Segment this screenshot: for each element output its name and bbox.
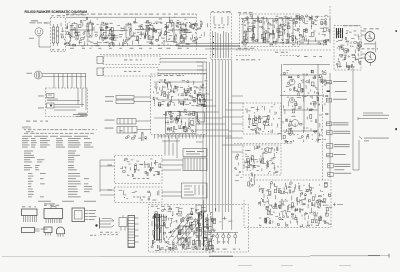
L channel label bbox=[108, 165, 113, 166]
speaker system B terminal label bbox=[333, 98, 347, 101]
FM select label bbox=[38, 95, 44, 98]
meter M1 needle bbox=[368, 33, 373, 39]
terminal block TB3 bbox=[196, 241, 201, 248]
meter connecting wires bbox=[361, 31, 366, 58]
right power amplifier dashed box bbox=[115, 187, 163, 203]
FM signal path wire bbox=[70, 30, 190, 31]
AC plug drawing bbox=[119, 215, 127, 231]
parts list text bbox=[22, 136, 93, 197]
function switch label bbox=[212, 11, 231, 12]
AC outlet terminal label bbox=[334, 144, 350, 147]
filter section dashed box bbox=[243, 103, 281, 134]
power supply components bbox=[151, 207, 216, 251]
plate text bbox=[186, 151, 204, 154]
IF transformer T1 bbox=[72, 24, 77, 38]
FM IF amplifier components bbox=[66, 22, 198, 46]
meter interconnect wire bbox=[370, 41, 376, 66]
IF transformer T3 bbox=[101, 24, 106, 38]
psu sparse wires bbox=[215, 208, 242, 222]
FM antenna jack J1 bbox=[35, 28, 43, 36]
L ch label bbox=[124, 59, 142, 60]
detector coupling components bbox=[197, 21, 210, 45]
flat package Q outline bbox=[22, 228, 48, 233]
footnote bracket 2 bbox=[359, 137, 389, 142]
section divider dashed wire 2 bbox=[100, 54, 207, 56]
wire bbox=[74, 22, 76, 24]
protection circuit dashed box bbox=[243, 145, 281, 175]
lamp labels bbox=[218, 241, 228, 242]
wire bbox=[128, 23, 130, 25]
IC package U3 outline bbox=[72, 208, 89, 222]
switch section S1-3 bbox=[47, 103, 55, 108]
fuse holder F1 bbox=[209, 239, 212, 250]
terminal block TB1 bbox=[196, 205, 202, 213]
ground terminal label bbox=[334, 172, 351, 175]
power amplifier components bbox=[283, 70, 328, 142]
B+ rail wire bbox=[66, 16, 196, 18]
phono aux wires bbox=[136, 121, 151, 130]
wire bbox=[150, 24, 152, 26]
voltage note underline bbox=[334, 168, 344, 171]
L AMPL label bbox=[133, 178, 149, 179]
headphone jack terminal bbox=[326, 122, 331, 126]
IF transformer T5 bbox=[148, 26, 153, 40]
jack return wires bbox=[142, 132, 144, 141]
switch S1-2 underline bbox=[47, 98, 58, 100]
wire bbox=[89, 22, 91, 24]
power amp rail wires bbox=[280, 64, 330, 143]
wire bbox=[44, 22, 51, 24]
power supply dashed box bbox=[149, 205, 249, 253]
IF transformer T7 bbox=[181, 24, 186, 38]
voltage regulator components bbox=[258, 182, 332, 227]
switch caption line bbox=[26, 121, 48, 122]
amp section divider dashed wire bbox=[234, 143, 292, 145]
switch routing wires bbox=[47, 88, 86, 110]
speaker system A terminal bbox=[326, 81, 331, 84]
switch position labels bbox=[214, 25, 228, 26]
U2 label bbox=[44, 205, 62, 206]
wire bbox=[169, 21, 171, 23]
IC package U1 outline bbox=[22, 209, 38, 222]
fuse holder terminal bbox=[327, 154, 333, 157]
R ch label bbox=[124, 71, 140, 72]
AM bar antenna bbox=[34, 71, 42, 79]
heat sink fins bbox=[185, 158, 203, 171]
demodulator matrix wires bbox=[243, 19, 293, 44]
front end caption bbox=[52, 49, 64, 50]
footnote bracket 1 bbox=[358, 113, 389, 120]
subtitle dashes bbox=[66, 13, 86, 16]
phono aux labels bbox=[105, 120, 115, 129]
ground terminal bbox=[328, 172, 334, 176]
function switch S1 dashed box bbox=[211, 13, 232, 60]
terminal strip bbox=[128, 216, 139, 248]
output transistor Q201 bbox=[289, 79, 295, 85]
FM front end dashed box bbox=[51, 18, 66, 52]
left power amplifier dashed box bbox=[115, 156, 163, 184]
switch wafer contacts bbox=[213, 16, 229, 58]
oscillator coil L2 bbox=[56, 24, 59, 46]
front end components bbox=[60, 23, 66, 45]
meter M2 needle bbox=[368, 53, 373, 59]
IF strip value labels bbox=[70, 48, 189, 49]
antenna switch dashed box bbox=[46, 88, 88, 117]
IF transformer T2 bbox=[87, 23, 92, 37]
power block label bbox=[343, 25, 360, 26]
dashed corner wire bbox=[296, 6, 330, 20]
headphone jack terminal label bbox=[333, 122, 349, 125]
IF strip upper components bbox=[69, 17, 190, 24]
pilot lamp PL2 bbox=[222, 233, 225, 245]
stereo demodulator components bbox=[242, 14, 300, 45]
output board parts bbox=[184, 185, 203, 195]
FM antenna label bbox=[30, 20, 48, 23]
page edge mark right bbox=[395, 128, 397, 130]
U1 label bbox=[22, 206, 36, 207]
wire bbox=[39, 36, 51, 47]
R channel output dashed box bbox=[104, 68, 159, 77]
meter M1 caption bbox=[364, 42, 375, 45]
tone control sub board bbox=[166, 112, 197, 134]
transistor package Q1 drawing bbox=[44, 227, 52, 236]
bar antenna hatch bbox=[37, 72, 40, 79]
terminal block TB2 bbox=[196, 228, 202, 237]
signal meter M2 bbox=[365, 52, 376, 63]
bias labels bbox=[297, 56, 322, 57]
demodulator rail wires bbox=[241, 19, 298, 44]
R AMPL label bbox=[133, 197, 150, 198]
signal meter label bbox=[362, 48, 378, 49]
meter driver wires bbox=[299, 17, 330, 44]
power transformer dashed box bbox=[334, 26, 361, 71]
speaker B text mark bbox=[327, 91, 347, 93]
AC cord terminal label bbox=[334, 164, 350, 167]
heat sink block bbox=[183, 158, 207, 171]
output board block bbox=[182, 183, 208, 198]
IF strip part labels bbox=[66, 14, 196, 15]
section divider dashed wire bbox=[236, 49, 332, 51]
pilot lamp PL1 bbox=[216, 233, 219, 245]
left amplifier components bbox=[120, 159, 161, 177]
L output connector bbox=[97, 57, 103, 64]
impedance label bbox=[29, 37, 34, 40]
lamp supply wire bbox=[205, 232, 238, 234]
jack caption line 1 bbox=[100, 231, 120, 234]
note line 2 bbox=[24, 132, 94, 135]
IF section dashed border bbox=[195, 14, 197, 50]
parts list footer text bbox=[38, 201, 96, 204]
signal bus wires bbox=[203, 60, 232, 231]
input select block B bbox=[198, 112, 205, 122]
tone amp label bbox=[158, 75, 184, 76]
fuse holder terminal label bbox=[334, 153, 346, 156]
jack caption line 2 bbox=[100, 233, 118, 236]
amplifier interconnect wires bbox=[162, 137, 183, 196]
speaker system B terminal bbox=[326, 98, 331, 102]
stereo demodulator label bbox=[238, 12, 253, 13]
bus tie wires top bbox=[178, 44, 250, 71]
tone control amplifier dashed box bbox=[151, 74, 207, 135]
amplifier input wires bbox=[100, 160, 115, 195]
signal meter driver components bbox=[297, 15, 330, 46]
IC package U2 outline bbox=[44, 207, 63, 224]
page edge mark bbox=[396, 30, 397, 32]
phono aux ticks bbox=[120, 119, 132, 134]
AM select label bbox=[38, 107, 44, 110]
output transistor Q202 bbox=[290, 98, 295, 103]
antenna drop wires bbox=[54, 74, 86, 89]
stereo demodulator dashed box bbox=[240, 14, 300, 47]
tape rec jack bbox=[116, 96, 134, 100]
package note text bbox=[90, 235, 99, 236]
right amplifier components bbox=[119, 190, 159, 201]
switch position labels 2 bbox=[214, 27, 228, 28]
AC cord terminal bbox=[328, 164, 334, 168]
svg-text:NOTES:: NOTES: bbox=[22, 126, 31, 129]
switch corner text bbox=[78, 113, 87, 116]
switch S1-3 arrow bbox=[50, 105, 53, 108]
tape play jack bbox=[116, 100, 134, 104]
tuning meter M1 bbox=[365, 32, 375, 42]
bottom wires bbox=[202, 200, 211, 254]
pilot lamp PL3 bbox=[227, 233, 230, 245]
divider dashes bbox=[236, 55, 300, 57]
tone control components bbox=[163, 109, 200, 132]
R output connector bbox=[97, 68, 103, 76]
tuning meter label bbox=[364, 28, 379, 29]
tuning capacitor C1 bbox=[52, 24, 55, 46]
transformer winding bars bbox=[337, 28, 343, 38]
transformer secondary hatch bbox=[168, 214, 200, 246]
wire bbox=[103, 23, 105, 25]
bottom border line segments bbox=[2, 254, 389, 258]
speaker terminal wires vertical bbox=[323, 66, 360, 180]
wire bbox=[183, 23, 185, 25]
AC outlet terminal bbox=[327, 144, 333, 148]
power block components bbox=[336, 31, 362, 70]
IF transformer T6 bbox=[167, 23, 175, 42]
switch note text bbox=[73, 114, 87, 117]
filter section components bbox=[245, 105, 281, 134]
regulator dashed box bbox=[244, 180, 331, 228]
switch section S1-2 bbox=[47, 94, 55, 98]
driver board connector plate bbox=[183, 149, 207, 157]
power supply label bbox=[151, 206, 171, 207]
speaker system A terminal label bbox=[333, 80, 347, 83]
svg-text:RX-630 RANKER SCHEMATIC DIAGRA: RX-630 RANKER SCHEMATIC DIAGRAM bbox=[25, 10, 88, 14]
input select block A bbox=[198, 95, 205, 104]
note line 1b bbox=[26, 130, 33, 133]
phono jack block bbox=[117, 119, 136, 125]
demodulator caption bbox=[238, 48, 258, 49]
output wires to bus bbox=[158, 59, 207, 74]
aux wiring components bbox=[120, 130, 147, 139]
speaker common terminal label bbox=[333, 131, 350, 134]
bridge rectifier D102 bbox=[178, 238, 190, 245]
FM position label bbox=[48, 94, 52, 97]
pilot lamp PL4 bbox=[234, 233, 237, 245]
power transformer T101 bbox=[155, 214, 164, 240]
transistor package Q2 drawing bbox=[57, 227, 65, 237]
note line 1 bbox=[24, 128, 97, 131]
IF transformer T4 bbox=[126, 24, 131, 38]
psu caption bbox=[160, 249, 240, 250]
bus tie wires left bbox=[154, 82, 232, 142]
R channel label bbox=[108, 190, 113, 191]
driver stage components bbox=[235, 150, 260, 186]
footer fine print bbox=[238, 264, 351, 267]
tone board pin ticks bbox=[155, 135, 204, 139]
bus tie wires right bbox=[222, 96, 243, 152]
AM antenna label bbox=[27, 72, 33, 75]
output transistor Q203 bbox=[292, 120, 299, 127]
speaker common terminal bbox=[327, 130, 333, 134]
U3 pin labels bbox=[89, 210, 97, 220]
filter capacitors bbox=[199, 212, 211, 246]
headphone jack drawing bbox=[100, 218, 115, 229]
protection circuit components bbox=[244, 146, 278, 174]
tape jack labels bbox=[105, 96, 114, 101]
jack pins bbox=[38, 30, 41, 33]
service connector mark bbox=[333, 203, 343, 206]
divider label bbox=[275, 52, 290, 53]
bridge rectifier D101 bbox=[178, 226, 189, 233]
tone amplifier channel components bbox=[153, 79, 207, 106]
aux jack block bbox=[117, 127, 137, 134]
front end label bbox=[52, 15, 66, 16]
antenna lead wires bbox=[42, 74, 86, 77]
tape jack wires bbox=[134, 97, 151, 102]
lower caption row bbox=[236, 59, 260, 60]
L channel output dashed box bbox=[104, 56, 161, 65]
package footnote dot bbox=[95, 224, 97, 226]
ground rail wire bbox=[66, 45, 240, 47]
